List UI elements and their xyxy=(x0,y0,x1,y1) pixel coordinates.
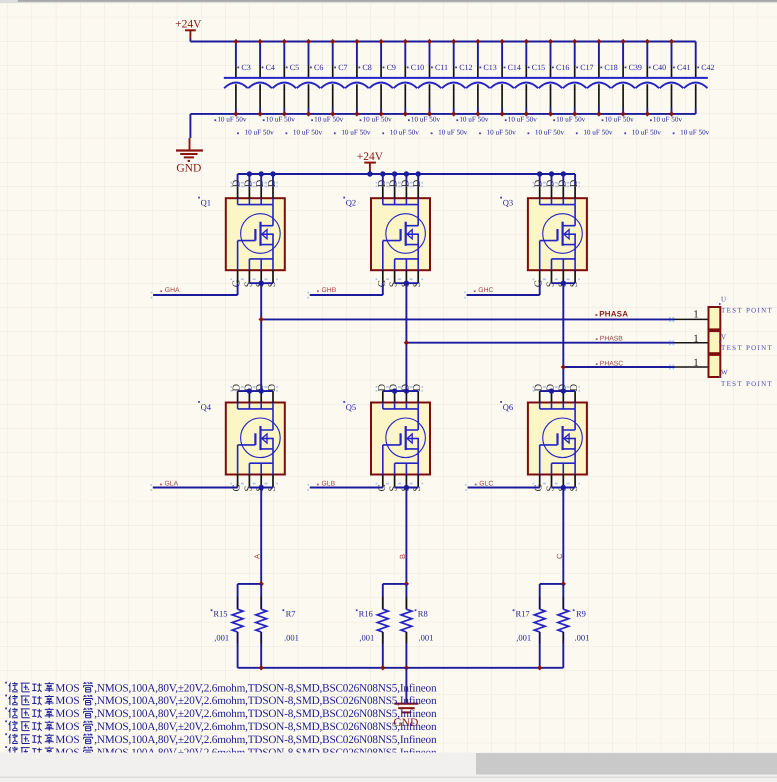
svg-text:.001: .001 xyxy=(284,633,299,643)
capacitor C15 xyxy=(505,39,545,124)
capacitor C39 xyxy=(602,39,642,124)
svg-text:1: 1 xyxy=(693,309,699,321)
transistor Q2 xyxy=(343,179,430,287)
svg-text:10 uF 50v: 10 uF 50v xyxy=(632,129,662,137)
capacitor C41 xyxy=(650,39,690,124)
net label W xyxy=(719,368,728,378)
svg-text:R8: R8 xyxy=(418,608,428,618)
capacitor plates line xyxy=(224,77,708,79)
capacitor C9 xyxy=(360,39,396,124)
svg-text:10 uF 50v: 10 uF 50v xyxy=(341,129,371,137)
transistor Q1 xyxy=(198,179,285,287)
wire shunt top R16/R8 xyxy=(383,583,407,585)
power port +24V top-left xyxy=(175,19,202,42)
wire phase B vertical xyxy=(405,283,407,391)
svg-text:C3: C3 xyxy=(241,63,250,72)
wire PHASA to test point xyxy=(259,317,709,322)
ground GND bottom xyxy=(393,704,418,729)
svg-text:C4: C4 xyxy=(266,63,275,72)
svg-text:10 uF 50v: 10 uF 50v xyxy=(535,129,565,137)
svg-text:,NMOS,100A,80V,±20V,2.6mohm,TD: ,NMOS,100A,80V,±20V,2.6mohm,TDSON-8,SMD,… xyxy=(94,682,437,694)
svg-text:C12: C12 xyxy=(459,63,472,72)
svg-text:10 uF 50v: 10 uF 50v xyxy=(266,115,296,123)
svg-text:MOS: MOS xyxy=(55,734,79,746)
svg-text:R17: R17 xyxy=(516,608,530,618)
svg-text:10 uF 50v: 10 uF 50v xyxy=(363,115,393,123)
svg-text:C13: C13 xyxy=(483,63,496,72)
svg-text:PHASA: PHASA xyxy=(599,310,628,319)
net label GHC xyxy=(464,287,493,298)
text description line 2 xyxy=(5,695,437,708)
wire left drop to GND xyxy=(189,114,191,138)
capacitor C40 xyxy=(624,39,666,137)
svg-text:C6: C6 xyxy=(314,63,323,72)
resistor R15 xyxy=(211,584,243,668)
svg-text:C14: C14 xyxy=(508,63,521,72)
net label GLA xyxy=(150,480,178,491)
svg-text:A: A xyxy=(253,554,262,559)
net label U xyxy=(719,295,726,305)
wire PHASB to test point xyxy=(404,340,709,345)
test point U xyxy=(693,307,720,329)
wire source bus Q row1 col C xyxy=(552,282,576,284)
svg-text:C40: C40 xyxy=(653,63,666,72)
svg-text:,001: ,001 xyxy=(214,633,229,643)
net label V xyxy=(719,333,726,343)
svg-text:Q4: Q4 xyxy=(201,402,212,412)
svg-text:+24V: +24V xyxy=(175,19,202,31)
wire rail stubs to drain pins row1 xyxy=(238,174,575,187)
wire gate GLB xyxy=(310,487,383,489)
wire +24V top rail xyxy=(190,41,695,43)
wire source bus Q row2 col B xyxy=(395,487,419,489)
svg-text:10 uF 50v: 10 uF 50v xyxy=(653,115,683,123)
svg-text:,001: ,001 xyxy=(516,633,531,643)
transistor Q3 xyxy=(500,179,587,287)
svg-text:10 uF 50v: 10 uF 50v xyxy=(459,115,489,123)
wire shunt top R17/R9 xyxy=(540,583,564,585)
svg-text:10 uF 50v: 10 uF 50v xyxy=(293,129,323,137)
svg-text:TEST POINT: TEST POINT xyxy=(721,380,773,388)
wire drain bus row2 col C xyxy=(540,390,575,392)
svg-text:.001: .001 xyxy=(575,633,590,643)
wire phase A to shunt xyxy=(260,488,262,584)
svg-text:C7: C7 xyxy=(338,63,347,72)
svg-text:,NMOS,100A,80V,±20V,2.6mohm,TD: ,NMOS,100A,80V,±20V,2.6mohm,TDSON-8,SMD,… xyxy=(94,721,437,733)
svg-text:10 uF 50v: 10 uF 50v xyxy=(411,115,441,123)
text description line 1 xyxy=(5,682,437,695)
text description line 3 xyxy=(5,708,437,721)
wire PHASC to test point xyxy=(561,364,709,369)
net label PHASC xyxy=(596,360,624,367)
wire +24V transistor rail xyxy=(238,173,575,175)
resistor R7 xyxy=(256,584,299,668)
wire gate GHB xyxy=(310,283,383,295)
svg-text:R7: R7 xyxy=(286,608,296,618)
text description line 4 xyxy=(5,720,437,733)
capacitor C18 xyxy=(576,39,618,137)
net label PHASB xyxy=(596,335,624,342)
svg-text:U: U xyxy=(721,295,726,303)
transistor Q5 xyxy=(343,384,430,492)
capacitor C13 xyxy=(456,39,496,124)
svg-text:,NMOS,100A,80V,±20V,2.6mohm,TD: ,NMOS,100A,80V,±20V,2.6mohm,TDSON-8,SMD,… xyxy=(94,695,437,707)
svg-text:GLB: GLB xyxy=(322,480,336,487)
wire phase C to shunt xyxy=(562,488,564,584)
svg-text:PHASB: PHASB xyxy=(600,335,624,342)
svg-text:10 uF 50v: 10 uF 50v xyxy=(508,115,538,123)
power port +24V middle xyxy=(357,151,384,174)
svg-text:1: 1 xyxy=(693,357,699,369)
capacitor C5 xyxy=(263,39,299,124)
svg-text:C15: C15 xyxy=(532,63,545,72)
capacitor C6 xyxy=(286,39,324,137)
svg-text:10 uF 50v: 10 uF 50v xyxy=(390,129,420,137)
svg-text:GLA: GLA xyxy=(165,480,179,487)
transistor Q6 xyxy=(500,384,587,492)
svg-text:TEST POINT: TEST POINT xyxy=(721,307,773,315)
svg-text:MOS: MOS xyxy=(55,721,79,733)
test point V xyxy=(693,331,720,353)
capacitor C14 xyxy=(479,39,521,137)
svg-text:GHB: GHB xyxy=(322,287,337,294)
svg-text:R9: R9 xyxy=(576,608,586,618)
capacitor C12 xyxy=(431,39,473,137)
wire stub to GND xyxy=(405,668,407,704)
net label PHASA xyxy=(596,310,629,319)
svg-text:+24V: +24V xyxy=(357,151,384,163)
resistor R17 xyxy=(513,584,545,668)
svg-text:C18: C18 xyxy=(604,63,617,72)
resistor R8 xyxy=(401,584,433,668)
svg-text:,NMOS,100A,80V,±20V,2.6mohm,TD: ,NMOS,100A,80V,±20V,2.6mohm,TDSON-8,SMD,… xyxy=(94,708,437,720)
svg-text:C42: C42 xyxy=(701,63,714,72)
svg-text:MOS: MOS xyxy=(55,708,79,720)
wire bottom cap rail xyxy=(190,113,695,115)
svg-text:TEST POINT: TEST POINT xyxy=(721,344,773,352)
test point W xyxy=(693,355,720,377)
wire phase C vertical xyxy=(562,283,564,391)
svg-text:10 uF 50v: 10 uF 50v xyxy=(217,115,247,123)
wire gate GLC xyxy=(468,487,540,489)
svg-text:GLC: GLC xyxy=(479,480,493,487)
capacitor C42 xyxy=(673,42,715,137)
wire bottom shunt rail xyxy=(238,667,564,669)
net label GHA xyxy=(151,287,180,298)
wire gate GHA xyxy=(153,283,238,295)
capacitor C11 xyxy=(408,39,448,124)
svg-text:C9: C9 xyxy=(387,63,396,72)
wire gate GLA xyxy=(153,487,238,489)
svg-text:10 uF 50v: 10 uF 50v xyxy=(583,129,613,137)
wire phase A vertical xyxy=(260,283,262,391)
capacitor C3 xyxy=(214,39,250,124)
svg-text:C: C xyxy=(555,553,564,559)
capacitor C8 xyxy=(334,39,372,137)
wire source bus Q row2 col C xyxy=(552,487,576,489)
resistor R16 xyxy=(356,584,388,668)
svg-text:1: 1 xyxy=(693,333,699,345)
svg-text:C39: C39 xyxy=(629,63,642,72)
svg-text:C16: C16 xyxy=(556,63,569,72)
text description line 6 xyxy=(5,746,437,759)
svg-text:C17: C17 xyxy=(580,63,593,72)
capacitor C7 xyxy=(311,39,347,124)
svg-text:Q2: Q2 xyxy=(346,198,356,208)
wire drain bus row2 col A xyxy=(238,390,273,392)
svg-text:C8: C8 xyxy=(362,63,371,72)
svg-text:PHASC: PHASC xyxy=(600,360,624,367)
resistor R9 xyxy=(558,584,589,668)
svg-text:C10: C10 xyxy=(411,63,424,72)
svg-text:V: V xyxy=(721,333,726,341)
wire source bus Q row1 col A xyxy=(249,282,273,284)
ground GND top-left xyxy=(176,138,203,174)
svg-text:10 uF 50v: 10 uF 50v xyxy=(438,129,468,137)
svg-text:Q1: Q1 xyxy=(201,198,211,208)
capacitor C16 xyxy=(528,39,570,137)
text description line 5 xyxy=(5,733,437,746)
capacitor C10 xyxy=(382,39,424,137)
svg-text:GHA: GHA xyxy=(165,287,180,294)
svg-text:,001: ,001 xyxy=(359,633,374,643)
wire source bus Q row2 col A xyxy=(249,487,273,489)
svg-text:R15: R15 xyxy=(213,608,227,618)
svg-text:W: W xyxy=(721,368,728,376)
junction dots on +24V rail xyxy=(247,171,252,176)
svg-text:GND: GND xyxy=(176,163,201,175)
svg-text:.001: .001 xyxy=(419,633,434,643)
svg-text:10 uF 50v: 10 uF 50v xyxy=(314,115,344,123)
svg-text:Q6: Q6 xyxy=(503,402,513,412)
capacitor C17 xyxy=(553,39,593,124)
svg-text:C5: C5 xyxy=(290,63,299,72)
svg-text:10 uF 50v: 10 uF 50v xyxy=(680,129,710,137)
svg-text:MOS: MOS xyxy=(55,695,79,707)
wire gate GHC xyxy=(467,283,540,295)
bottom scrollbar area xyxy=(0,753,777,782)
svg-text:R16: R16 xyxy=(359,608,373,618)
svg-text:10 uF 50v: 10 uF 50v xyxy=(487,129,517,137)
svg-text:MOS: MOS xyxy=(55,682,79,694)
capacitor C4 xyxy=(237,39,275,137)
net label GLC xyxy=(465,480,493,491)
svg-text:B: B xyxy=(398,554,407,559)
wire phase B to shunt xyxy=(405,488,407,584)
wire source bus Q row1 col B xyxy=(395,282,419,284)
svg-text:GHC: GHC xyxy=(478,287,493,294)
svg-text:C11: C11 xyxy=(435,63,448,72)
transistor Q4 xyxy=(198,384,285,492)
svg-text:C41: C41 xyxy=(677,63,690,72)
svg-text:10 uF 50v: 10 uF 50v xyxy=(245,129,275,137)
wire shunt top R15/R7 xyxy=(238,583,262,585)
top scrollbar strip xyxy=(0,0,777,3)
svg-text:,NMOS,100A,80V,±20V,2.6mohm,TD: ,NMOS,100A,80V,±20V,2.6mohm,TDSON-8,SMD,… xyxy=(94,734,437,746)
svg-text:10 uF 50v: 10 uF 50v xyxy=(605,115,635,123)
net label GLB xyxy=(307,480,335,491)
svg-text:Q3: Q3 xyxy=(503,198,513,208)
svg-text:10 uF 50v: 10 uF 50v xyxy=(556,115,586,123)
wire drain bus row2 col B xyxy=(383,390,418,392)
svg-text:Q5: Q5 xyxy=(346,402,356,412)
net label GHB xyxy=(307,287,336,298)
